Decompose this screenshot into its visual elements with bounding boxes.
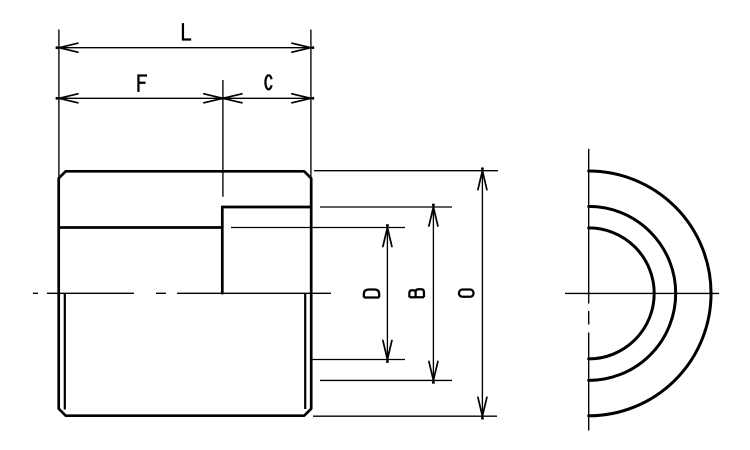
extension line D bottom — [312, 359, 405, 361]
thread line left — [64, 293, 66, 409]
body outline — [59, 171, 312, 415]
extension line B bottom — [320, 379, 452, 381]
label C — [265, 75, 271, 89]
label O — [459, 290, 474, 297]
extension line left (L/F) — [58, 30, 60, 178]
bore line — [59, 226, 223, 229]
label B — [409, 289, 424, 297]
counterbore step line — [222, 206, 311, 209]
label F — [138, 76, 147, 92]
horizontal centerline right view — [565, 292, 719, 294]
dimension line F — [59, 97, 223, 99]
extension line right (L/C) — [310, 30, 312, 178]
thread line right — [304, 293, 306, 409]
label D — [364, 290, 379, 298]
extension line O bottom — [313, 415, 497, 417]
vertical centerline right view — [588, 149, 590, 431]
dimension line C — [223, 97, 311, 99]
dimension line O — [481, 171, 483, 417]
dimension line L — [59, 47, 311, 49]
extension line O top — [314, 170, 498, 172]
inner arc — [589, 228, 655, 359]
centerline left view — [33, 292, 331, 294]
label L — [183, 23, 191, 39]
counterbore step vertical — [221, 207, 224, 293]
outer arc — [589, 171, 711, 416]
dimension line B — [432, 207, 434, 380]
extension line B top — [320, 206, 452, 208]
extension line D top — [231, 227, 405, 229]
dimension line D — [386, 228, 388, 360]
middle arc — [589, 206, 676, 380]
extension line middle (F/C) — [222, 80, 224, 197]
